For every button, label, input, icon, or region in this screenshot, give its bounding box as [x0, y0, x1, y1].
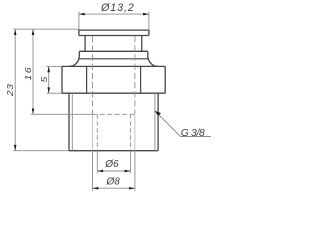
bore D6 hidden line left [96, 114, 98, 150]
dim 23 line [14, 29, 16, 151]
step vertical left [78, 51, 80, 55]
leader line G3/8 [155, 111, 211, 137]
extension tick hex top [46, 65, 62, 67]
arrow dia13.2 right [143, 13, 149, 16]
extension tick hex bottom [46, 92, 62, 94]
arrow dim23 bottom (down) [14, 145, 17, 151]
extension line bottom y150.7 [13, 150, 69, 152]
dia6 extension left [96, 151, 98, 174]
hex left edge [61, 66, 63, 93]
bore D8 hidden line right [134, 36, 136, 114]
svg-text:Ø6: Ø6 [104, 159, 119, 170]
step line y51.3 [79, 50, 148, 52]
svg-text:5: 5 [40, 77, 49, 83]
bore D8 hidden line left [92, 36, 94, 114]
arrow dia8 right [129, 187, 135, 190]
dim 16 line [32, 29, 34, 114]
svg-text:Ø8: Ø8 [106, 177, 121, 188]
bore step dashed line [93, 113, 135, 115]
dia13.2 extension right [148, 12, 150, 30]
thread end line left part [31, 113, 93, 115]
arrow dim16 top (up) [32, 29, 35, 35]
neck right wire [141, 36, 143, 52]
dia8 dim line [93, 187, 135, 189]
step vertical right [147, 51, 149, 55]
neck left wire [84, 36, 86, 52]
arrow dia6 left [97, 170, 103, 173]
collar top face line y58.8 [79, 58, 149, 60]
hex flat line right [140, 66, 142, 93]
body left edge [68, 93, 70, 151]
dia8 extension right [134, 151, 136, 191]
arrow dim5 bottom (down) [47, 87, 50, 93]
dia8 extension right (inside body, faint) [134, 115, 136, 151]
arrow dim16 bottom (down) [32, 109, 35, 115]
dia8 extension left (inside body, faint) [92, 115, 94, 151]
extension line top y29.2 [13, 28, 79, 30]
arrow dim5 top (up) [47, 66, 50, 72]
thread root line right [154, 93, 156, 151]
hex flat line left [86, 66, 88, 93]
arrow dia6 right [125, 170, 131, 173]
bore D6 hidden line right [129, 114, 131, 150]
arrow dim23 top (up) [14, 29, 17, 35]
dia6 extension right [129, 151, 131, 174]
body bottom edge [69, 150, 158, 152]
hex right edge [164, 66, 166, 93]
svg-text:G 3/8: G 3/8 [181, 128, 205, 139]
dia8 extension left [92, 151, 94, 191]
body right edge [157, 93, 159, 151]
fillet arc right [148, 56, 158, 67]
hex bottom edge [62, 92, 165, 94]
flange (top cap) outline [79, 30, 149, 35]
svg-text:16: 16 [23, 66, 33, 80]
svg-text:23: 23 [6, 84, 15, 97]
fillet arc left [70, 56, 80, 67]
arrow leader G3/8 [155, 111, 161, 116]
thread root line left [71, 93, 73, 151]
dim 5 line [48, 66, 50, 93]
dia13.2 dim line [79, 13, 149, 15]
arrow dia8 left [93, 187, 99, 190]
svg-text:Ø13,2: Ø13,2 [100, 2, 135, 14]
dia6 dim line [97, 170, 130, 172]
hex top edge [62, 65, 165, 67]
dia13.2 extension left [78, 12, 80, 30]
arrow dia13.2 left [79, 13, 85, 16]
